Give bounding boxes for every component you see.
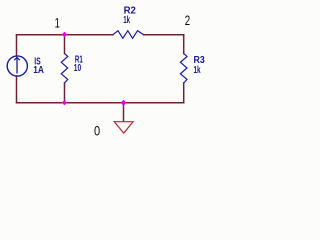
svg-text:0: 0 xyxy=(94,123,100,138)
svg-text:1: 1 xyxy=(55,16,60,31)
svg-text:1A: 1A xyxy=(33,65,44,76)
svg-text:1k: 1k xyxy=(123,13,130,25)
svg-text:2: 2 xyxy=(185,13,190,28)
svg-text:10: 10 xyxy=(74,62,82,74)
svg-text:1k: 1k xyxy=(194,63,201,75)
